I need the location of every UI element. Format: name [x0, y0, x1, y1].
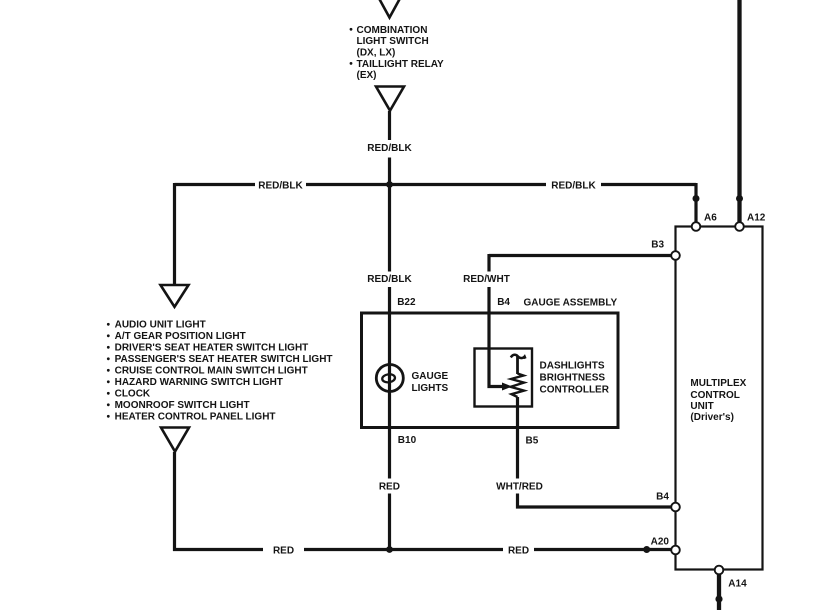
wire RED bottom horizontal, middle segment: [304, 548, 503, 551]
wire left branch down to arrow: [173, 183, 176, 285]
svg-text:RED/WHT: RED/WHT: [463, 274, 510, 285]
svg-text:A12: A12: [747, 213, 766, 224]
wire RED/BLK down from junction toward gauge assembly: [388, 186, 391, 272]
svg-text:AUDIO UNIT LIGHT: AUDIO UNIT LIGHT: [115, 320, 206, 331]
connector arrow symbol above RED/BLK feed: [376, 87, 404, 111]
svg-text:LIGHT SWITCH: LIGHT SWITCH: [357, 36, 429, 47]
wire RED/WHT corner down: [487, 254, 490, 272]
wire into pin B4 of gauge assembly: [487, 287, 490, 314]
wire from bulb to pin B10: [388, 392, 391, 429]
svg-text:CLOCK: CLOCK: [115, 389, 151, 400]
svg-text:B3: B3: [651, 240, 664, 251]
junction dot before pin A20: [643, 546, 650, 553]
wire RED from arrow down to bottom run: [173, 452, 176, 551]
junction at RED/BLK cross: [386, 181, 393, 188]
wire RED/BLK horizontal, middle segment: [306, 183, 546, 186]
wire B4 drop inside controller: [489, 314, 503, 387]
junction at RED cross with B10 wire: [386, 546, 393, 553]
wire down to pin A6: [694, 183, 697, 223]
svg-text:CONTROLLER: CONTROLLER: [540, 385, 610, 396]
svg-text:MOONROOF SWITCH LIGHT: MOONROOF SWITCH LIGHT: [115, 400, 250, 411]
wire RED/BLK from arrow down to label: [388, 111, 391, 140]
svg-text:(EX): (EX): [357, 70, 377, 81]
pin A12: [735, 222, 744, 231]
svg-text:MULTIPLEX: MULTIPLEX: [690, 378, 746, 389]
svg-text:B4: B4: [497, 297, 510, 308]
wire RED/BLK horizontal, left segment: [175, 183, 256, 186]
wire RED/BLK from label down to junction: [388, 158, 391, 187]
wire RED/BLK horizontal, right segment to multiplex A6: [601, 183, 696, 186]
junction dot above A12: [736, 195, 743, 202]
svg-text:HAZARD WARNING SWITCH LIGHT: HAZARD WARNING SWITCH LIGHT: [115, 377, 283, 388]
wire RED bottom horizontal, left segment: [173, 548, 263, 551]
svg-text:RED: RED: [379, 482, 400, 493]
svg-text:RED: RED: [273, 546, 294, 557]
svg-text:GAUGE ASSEMBLY: GAUGE ASSEMBLY: [524, 298, 618, 309]
svg-text:CRUISE CONTROL MAIN SWITCH LIG: CRUISE CONTROL MAIN SWITCH LIGHT: [115, 366, 308, 377]
svg-text:(DX, LX): (DX, LX): [357, 48, 396, 59]
svg-text:RED/BLK: RED/BLK: [367, 274, 412, 285]
svg-text:DASHLIGHTS: DASHLIGHTS: [540, 361, 605, 372]
svg-text:CONTROL: CONTROL: [690, 390, 739, 401]
pin A14: [715, 566, 724, 575]
label: destination list (combination light switch / taillight relay): [350, 25, 444, 81]
svg-text:B22: B22: [397, 297, 416, 308]
wire B3 horizontal from multiplex to RED/WHT drop: [489, 254, 672, 257]
svg-text:B4: B4: [656, 492, 669, 503]
svg-text:RED: RED: [508, 546, 529, 557]
wire thick feed down from A14: [717, 574, 721, 610]
svg-text:LIGHTS: LIGHTS: [412, 383, 449, 394]
label: interior illumination loads list: [107, 320, 333, 423]
wiper arrowhead pointing at rheostat: [502, 383, 512, 391]
connector arrow symbol below light list: [161, 428, 189, 452]
pin A20: [671, 546, 680, 555]
svg-text:A14: A14: [728, 579, 747, 590]
junction dot above A6: [693, 195, 700, 202]
connector arrow (to combination light switch / taillight relay), clipped at top: [376, 0, 404, 18]
svg-text:(Driver's): (Driver's): [690, 412, 734, 423]
box: multiplex control unit: [676, 227, 763, 570]
connector arrow symbol to interior light list: [161, 285, 189, 307]
wire RED bottom horizontal, right segment to pin A20: [534, 548, 672, 551]
wire RED from pin B10 down: [388, 427, 391, 479]
svg-text:B5: B5: [526, 436, 539, 447]
wire WHT/RED from pin B5 down: [516, 427, 519, 479]
lamp: gauge lights bulb: [376, 365, 403, 392]
pin A6: [692, 222, 701, 231]
box: gauge assembly: [362, 313, 619, 428]
svg-text:GAUGE: GAUGE: [412, 371, 449, 382]
wire into pin B22: [388, 287, 391, 314]
svg-text:A6: A6: [704, 213, 717, 224]
svg-text:RED/BLK: RED/BLK: [551, 181, 596, 192]
svg-text:WHT/RED: WHT/RED: [496, 482, 543, 493]
svg-text:B10: B10: [398, 435, 417, 446]
svg-text:DRIVER'S SEAT HEATER SWITCH LI: DRIVER'S SEAT HEATER SWITCH LIGHT: [115, 343, 309, 354]
rheostat: dashlights brightness controller element: [511, 355, 526, 359]
pin B4 (multiplex): [671, 503, 680, 512]
wire inside gauge assembly to bulb: [388, 314, 391, 392]
svg-text:COMBINATION: COMBINATION: [357, 25, 428, 36]
svg-text:TAILLIGHT RELAY: TAILLIGHT RELAY: [357, 59, 445, 70]
wire WHT/RED corner to multiplex pin B4: [518, 494, 672, 508]
label MULTIPLEX CONTROL UNIT (Driver's): [690, 378, 746, 423]
box: dashlights brightness controller: [475, 349, 533, 407]
svg-text:A/T GEAR POSITION LIGHT: A/T GEAR POSITION LIGHT: [115, 331, 246, 342]
svg-text:RED/BLK: RED/BLK: [367, 143, 412, 154]
svg-text:RED/BLK: RED/BLK: [258, 181, 303, 192]
svg-text:BRIGHTNESS: BRIGHTNESS: [540, 373, 606, 384]
pin B3: [671, 251, 680, 260]
wire RED to bottom junction: [388, 494, 391, 552]
svg-text:A20: A20: [651, 537, 670, 548]
svg-text:PASSENGER'S SEAT HEATER SWITCH: PASSENGER'S SEAT HEATER SWITCH LIGHT: [115, 354, 333, 365]
svg-text:UNIT: UNIT: [690, 401, 713, 412]
wire thick feed into A12 from top: [737, 0, 741, 223]
svg-text:HEATER CONTROL PANEL LIGHT: HEATER CONTROL PANEL LIGHT: [115, 412, 276, 423]
junction dot below A14: [715, 595, 722, 602]
